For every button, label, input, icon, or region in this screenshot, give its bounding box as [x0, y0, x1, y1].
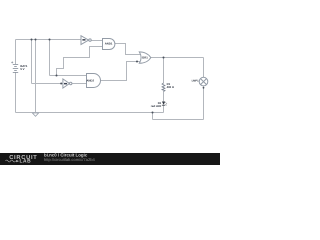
- svg-text:400 Ω: 400 Ω: [167, 86, 175, 89]
- svg-text:bi.nc0 / Circuit Logic: bi.nc0 / Circuit Logic: [44, 153, 87, 158]
- svg-text:AND2: AND2: [86, 80, 94, 83]
- svg-text:R1: R1: [167, 83, 171, 86]
- svg-text:5 V: 5 V: [20, 68, 24, 71]
- svg-text:BAT1: BAT1: [20, 65, 27, 68]
- svg-text:OR1: OR1: [142, 56, 148, 59]
- svg-text:D1: D1: [158, 102, 162, 105]
- svg-text:http://circuitlab.com/c/7a2b4: http://circuitlab.com/c/7a2b4: [44, 158, 95, 162]
- svg-text:LAB: LAB: [20, 159, 32, 165]
- svg-text:LMP1: LMP1: [192, 79, 199, 82]
- svg-text:AND1: AND1: [105, 43, 113, 46]
- svg-text:red LED: red LED: [151, 105, 161, 108]
